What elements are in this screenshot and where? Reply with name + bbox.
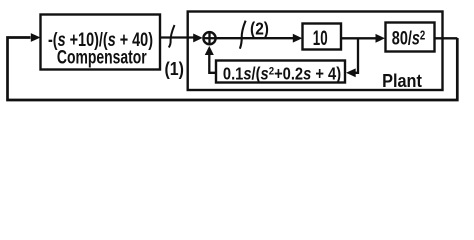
compensator box xyxy=(41,15,161,70)
gain block 10 xyxy=(303,24,342,50)
wire: tap junction down to rate feedback block xyxy=(353,38,358,73)
wire: summer to 10 block xyxy=(216,37,294,39)
plant box xyxy=(188,12,443,91)
summing junction xyxy=(203,32,215,44)
wire: 80/s^2 output to outer loop xyxy=(435,37,458,39)
wire: compensator output to summer xyxy=(160,36,195,38)
svg-text:Plant: Plant xyxy=(382,70,422,91)
svg-text:Compensator: Compensator xyxy=(57,46,147,68)
wire: rate feedback output up into summer xyxy=(209,53,216,73)
break mark slash (1) on wire xyxy=(169,25,175,48)
svg-text:(2): (2) xyxy=(250,19,269,39)
rate feedback block 0.1s/(s^2+0.2s+4) xyxy=(216,61,345,83)
svg-text:0.1s/(s2+0.2s + 4): 0.1s/(s2+0.2s + 4) xyxy=(223,64,341,83)
wire: input into compensator with arrowhead xyxy=(31,33,41,42)
wire: outer feedback loop (output right side, bottom, left side) xyxy=(8,38,458,101)
svg-text:10: 10 xyxy=(313,26,328,50)
svg-text:(1): (1) xyxy=(164,58,183,79)
wire: 10 block to 80/s^2 block xyxy=(341,37,377,39)
break mark slash (2) on wire xyxy=(240,21,246,49)
plant integrator block 80/s^2 xyxy=(386,23,435,52)
